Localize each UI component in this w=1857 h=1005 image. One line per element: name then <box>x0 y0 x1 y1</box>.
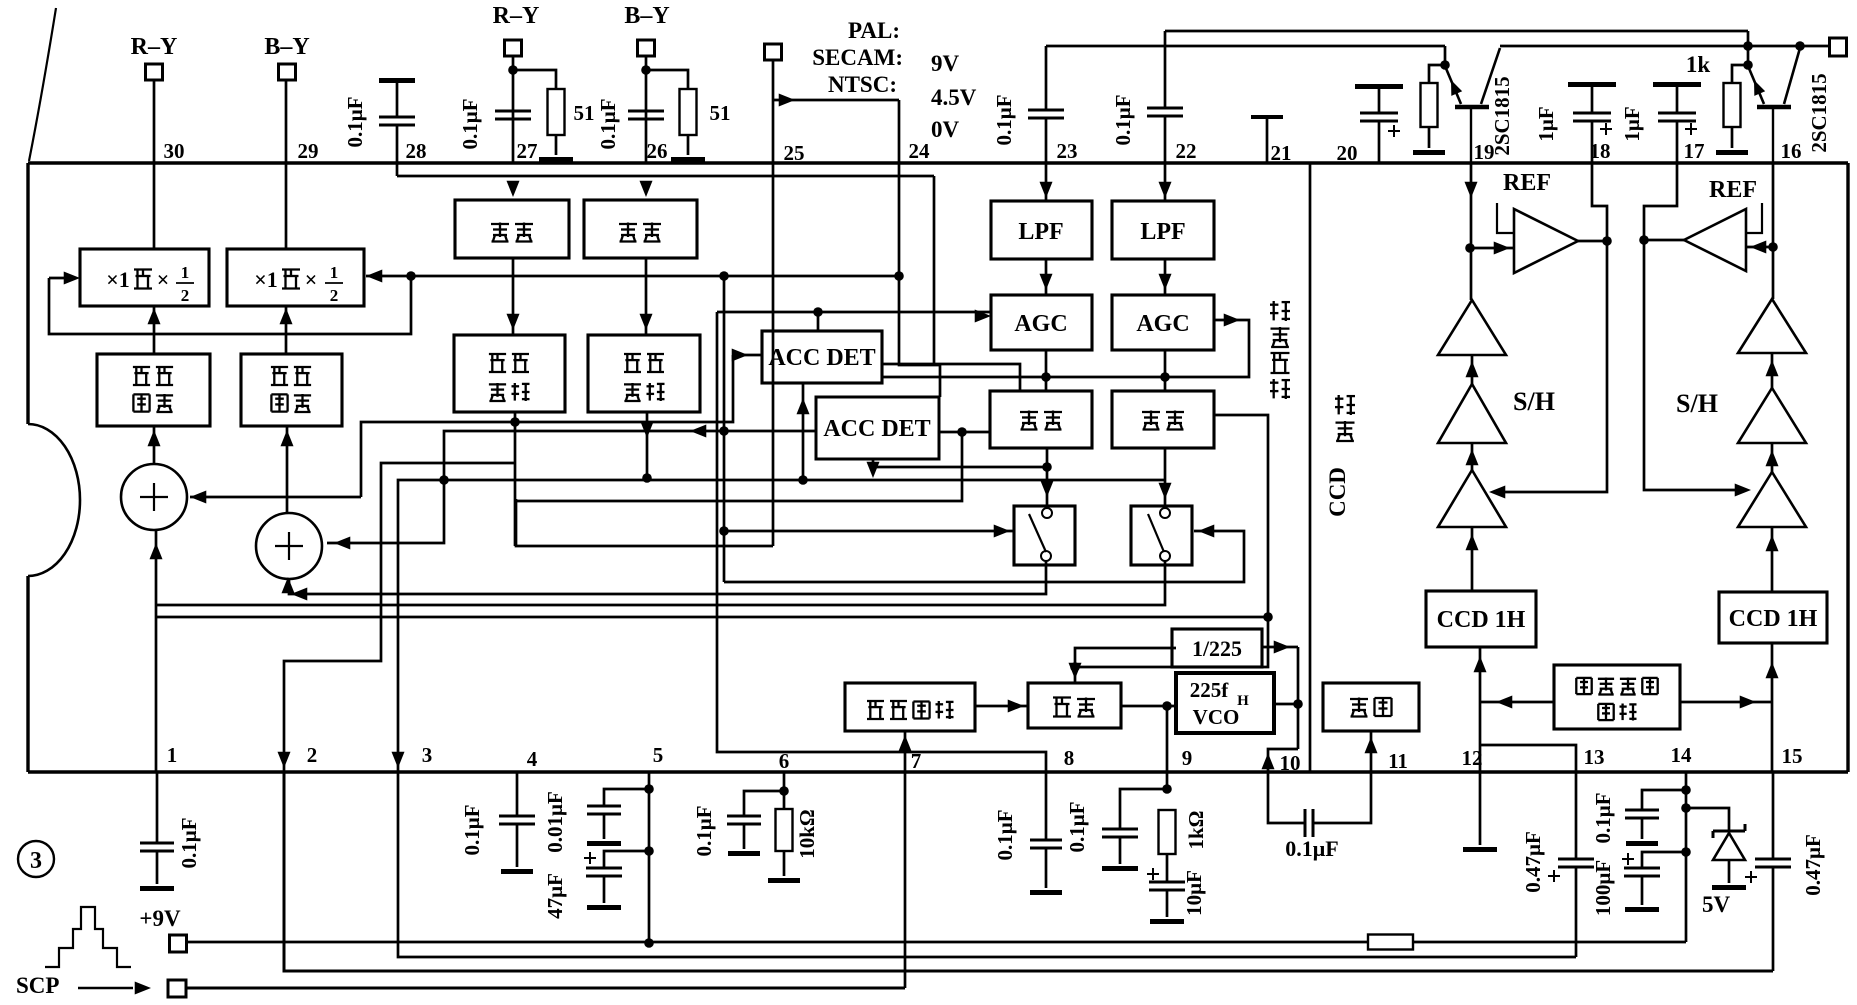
wire LPF1 to AGC1 <box>1045 259 1048 295</box>
svg-text:5: 5 <box>653 743 664 767</box>
wire bias to CCD1H-R line <box>1680 701 1772 704</box>
svg-text:9: 9 <box>1182 746 1193 770</box>
wire W3 insert1-node to pin 2 <box>284 463 515 772</box>
wire pulse gate to detect <box>975 705 1028 708</box>
wire ACC feedback bus from AGC2 <box>882 320 1249 377</box>
svg-text:14: 14 <box>1671 743 1693 767</box>
svg-text:2: 2 <box>330 286 339 305</box>
resistor 1k at pin 9 <box>1159 810 1176 854</box>
wire switch control SW2 loop <box>724 531 1244 582</box>
wire REF-R output to pin17 and feedback <box>1644 239 1684 242</box>
wire divider output <box>1262 646 1298 649</box>
output pad top right <box>1830 38 1847 56</box>
REF-L ref input bracket <box>1497 203 1514 233</box>
svg-text:4.5V: 4.5V <box>931 85 977 110</box>
feedback control wire to multipliers <box>64 271 80 284</box>
svg-text:1k: 1k <box>1686 52 1711 77</box>
wire into REF-R <box>1746 246 1773 249</box>
svg-text:3: 3 <box>422 743 433 767</box>
box multiplier x1 or x1/2 (B-Y) <box>227 249 364 306</box>
wire x1 box2 to pulse-removal 2 <box>279 308 292 324</box>
capacitor 0.1uF between pins 10 and 11 <box>1268 772 1305 823</box>
box clamp 4 <box>1112 391 1214 448</box>
svg-text:×1: ×1 <box>106 267 130 292</box>
resistor 51 at pin 26 <box>646 70 688 89</box>
svg-text:2: 2 <box>181 286 190 305</box>
box average level bias <box>1554 665 1680 729</box>
wire pin30 into x1-or-x1/2 <box>153 163 156 249</box>
svg-text:18: 18 <box>1590 139 1611 163</box>
wire insert1-node to ACC det2 output <box>515 432 962 501</box>
wire pin29 into x1-or-x1/2 2 <box>285 163 288 249</box>
box switch SW2 <box>1131 506 1192 565</box>
wire ACC det1 bottom <box>802 383 805 480</box>
wire pin16 down to A1R <box>1772 163 1775 299</box>
box detect <box>1028 683 1121 728</box>
resistor at Q1 emitter <box>1421 83 1438 127</box>
svg-text:CCD 1H: CCD 1H <box>1437 607 1526 633</box>
wire rail pin23 cap to Q1 emitter <box>1046 45 1445 48</box>
wire SW2 output to summer1 <box>156 560 1165 605</box>
transistor Q1 2SC1815 at pin 19 <box>1444 46 1447 65</box>
svg-text:SCP: SCP <box>16 973 59 998</box>
wire W2 ACC det2 input <box>327 431 816 543</box>
svg-text:CCD 1H: CCD 1H <box>1729 606 1818 632</box>
box clamp 3 <box>990 391 1092 448</box>
label CCD section <box>1336 421 1355 423</box>
amplifier triangle A2 left <box>1438 384 1506 443</box>
svg-text:0.1μF: 0.1μF <box>458 99 482 150</box>
svg-text:2SC1815: 2SC1815 <box>1807 73 1831 152</box>
svg-text:1: 1 <box>330 263 339 282</box>
svg-text:0.1μF: 0.1μF <box>993 810 1017 861</box>
wire pin 5 external <box>648 772 651 943</box>
box ACC DET 1 <box>762 331 882 383</box>
box LPF 1 <box>1039 182 1052 198</box>
svg-text:13: 13 <box>1584 745 1605 769</box>
svg-text:22: 22 <box>1176 139 1197 163</box>
svg-text:0.1μF: 0.1μF <box>460 805 484 856</box>
svg-text:100μF: 100μF <box>1591 860 1615 916</box>
REF-R ref input bracket <box>1746 203 1762 233</box>
box AGC 2 <box>1112 295 1214 350</box>
svg-text:ACC DET: ACC DET <box>823 416 930 442</box>
svg-text:VCO: VCO <box>1193 705 1240 729</box>
amplifier triangle A3 right <box>1738 472 1806 527</box>
wire SCP pin7 into pulse gate <box>904 731 907 988</box>
wire VCO to pin 10 <box>1268 749 1298 772</box>
box LPF 2 <box>1158 182 1171 198</box>
zener diode 5V at pin 14 <box>1686 808 1729 831</box>
svg-text:27: 27 <box>517 139 538 163</box>
wire pin9 to VCO input <box>1166 706 1169 789</box>
svg-text:0.1μF: 0.1μF <box>1285 836 1338 861</box>
svg-text:B–Y: B–Y <box>264 34 309 60</box>
capacitor 0.1uF at pin 6 <box>744 791 784 816</box>
svg-text:8: 8 <box>1064 746 1075 770</box>
svg-text:×: × <box>157 267 170 292</box>
amplifier triangle A2 right <box>1738 388 1806 443</box>
svg-text:0.1μF: 0.1μF <box>177 818 201 869</box>
wire x1 box to pulse-removal 1 <box>147 308 160 324</box>
svg-text:×1: ×1 <box>254 267 278 292</box>
wire LPF2 to AGC2 <box>1164 259 1167 295</box>
wire summer1 bottom to pin 1 <box>155 531 158 772</box>
wire control bus from pin 24/25 select <box>411 275 899 278</box>
svg-text:47μF: 47μF <box>543 873 567 919</box>
wire ACC det1 side to clamp3 top <box>882 364 1020 391</box>
resistor 10k at pin 6 <box>783 791 786 809</box>
wire switch control SW1 <box>719 526 729 536</box>
amplifier triangle A1 right <box>1738 299 1806 353</box>
svg-text:0.47μF: 0.47μF <box>1801 834 1825 895</box>
capacitor 10uF at pin 9 <box>1147 873 1159 875</box>
box pulse insert 2 <box>588 335 700 412</box>
amplifier triangle A3 left <box>1438 470 1506 527</box>
wire clock to pin 11 <box>1370 731 1373 772</box>
wire CCD1H-L down to pin 12/13 <box>1479 647 1482 772</box>
svg-text:S/H: S/H <box>1676 389 1718 418</box>
wire pin25 select to insert1-node <box>516 499 773 546</box>
wire ACC det2 bottom <box>872 459 875 467</box>
wire pulse-removal2 to summer2 <box>280 430 293 446</box>
svg-text:1μF: 1μF <box>1620 106 1644 141</box>
capacitor 0.1uF at pin 4 <box>516 772 519 816</box>
svg-text:R–Y: R–Y <box>493 3 540 29</box>
svg-text:0.1μF: 0.1μF <box>1591 793 1615 844</box>
svg-text:S/H: S/H <box>1513 387 1555 416</box>
wire A2-A1 <box>1471 355 1474 384</box>
capacitor 0.1uF at pin 8 <box>1045 772 1048 840</box>
svg-text:4: 4 <box>527 747 538 771</box>
SCP staircase waveform <box>45 907 131 967</box>
wire clamp4 output to detect and pin1 <box>1075 415 1268 683</box>
svg-text:0.1μF: 0.1μF <box>343 97 367 148</box>
box clamp 2 <box>639 181 652 197</box>
box clamp 1 <box>506 181 519 197</box>
junction node pin27/R51 <box>508 65 518 75</box>
summer S2 <box>256 513 322 579</box>
svg-text:11: 11 <box>1388 749 1408 773</box>
svg-text:CCD: CCD <box>1325 467 1350 517</box>
wire into REF-L <box>1470 247 1514 250</box>
box divider 1/225 <box>1172 629 1262 667</box>
wire clamp3 to switch SW1 <box>1046 448 1049 507</box>
box pulse gate <box>845 683 975 731</box>
wire SCP rail to pin 7 <box>186 987 905 990</box>
wire pin 6 external <box>783 772 786 791</box>
svg-text:+9V: +9V <box>139 906 181 931</box>
wire CCD1H-L up to S/H chain <box>1471 527 1474 591</box>
capacitor 1uF at pin 17 <box>1653 82 1701 87</box>
wire summer1 right input from pulse-insert net <box>190 490 206 503</box>
svg-text:21: 21 <box>1271 141 1292 165</box>
wire pin25 to pin24 node <box>779 93 795 106</box>
svg-text:7: 7 <box>911 749 922 773</box>
capacitor 0.47uF at pin 13 <box>1575 772 1578 859</box>
wire divider input tap <box>1070 662 1080 672</box>
svg-text:51: 51 <box>710 101 731 125</box>
wire switch control vertical <box>723 276 726 582</box>
wire A2R-A1R <box>1771 353 1774 388</box>
wire AGC2 to clamp4 <box>1164 350 1167 391</box>
svg-text:1: 1 <box>167 743 178 767</box>
capacitor 0.1uF at pin 14 <box>1642 790 1686 810</box>
box clock <box>1323 683 1419 731</box>
svg-text:ACC DET: ACC DET <box>768 345 875 371</box>
svg-text:2: 2 <box>307 743 318 767</box>
svg-text:28: 28 <box>406 139 427 163</box>
svg-text:5V: 5V <box>1702 892 1731 917</box>
separator line CCD section <box>1309 164 1312 772</box>
box pulse removal 1 <box>97 354 210 426</box>
wire ACC det2 right to clamp3 <box>939 431 990 434</box>
wire A3-A2 <box>1471 443 1474 470</box>
svg-text:NTSC:: NTSC: <box>828 72 897 97</box>
wire vertical to pin 8 <box>717 312 1046 772</box>
wire S pin3 ACC line <box>398 480 1165 772</box>
capacitor 0.47uF at pin 15 <box>1772 772 1775 859</box>
circled figure number 3 <box>18 841 54 877</box>
wire pin19 down to A1 <box>1470 163 1473 300</box>
transistor Q2 2SC1815 at pin 16 <box>1747 31 1750 46</box>
resistor 51 at pin 27 <box>513 70 556 89</box>
label bipolar section <box>1270 382 1278 384</box>
svg-text:10kΩ: 10kΩ <box>795 809 819 859</box>
terminal select (pin 25) <box>765 44 782 60</box>
wire clamp4 output to pin 1 net <box>156 616 1268 619</box>
wire pin 2 external to rail <box>284 772 1773 971</box>
test stub at pin 21 <box>1251 115 1283 119</box>
capacitor 1uF at pin 18 <box>1568 82 1616 87</box>
box switch SW1 <box>1014 506 1075 565</box>
svg-text:6: 6 <box>779 749 790 773</box>
svg-text:20: 20 <box>1337 141 1358 165</box>
svg-text:AGC: AGC <box>1014 311 1067 337</box>
svg-text:1: 1 <box>181 263 190 282</box>
svg-text:0.1μF: 0.1μF <box>992 95 1016 146</box>
amplifier REF left <box>1514 209 1578 273</box>
capacitor 0.1uF at pin 9 <box>1120 789 1167 829</box>
svg-text:LPF: LPF <box>1018 219 1063 245</box>
wire Q1 collector rail to output pad <box>1500 45 1830 48</box>
capacitor 0.1uF at pin 26 <box>628 110 664 113</box>
svg-text:17: 17 <box>1684 139 1705 163</box>
svg-text:REF: REF <box>1709 177 1757 203</box>
svg-text:24: 24 <box>909 139 931 163</box>
box ACC DET 2 <box>816 397 939 459</box>
box pulse removal 2 <box>241 354 342 426</box>
page curve mark top-left <box>29 8 56 161</box>
capacitor 0.1uF at pin 1 <box>156 772 159 843</box>
svg-text:0V: 0V <box>931 117 960 142</box>
svg-text:10: 10 <box>1280 751 1301 775</box>
summer S1 <box>121 464 187 530</box>
svg-text:SECAM:: SECAM: <box>812 45 903 70</box>
svg-text:PAL:: PAL: <box>848 18 900 43</box>
svg-text:51: 51 <box>574 101 595 125</box>
wire pin 14 power node <box>1685 772 1688 942</box>
box multiplier x1 or x1/2 (R-Y) <box>80 249 209 306</box>
capacitor 0.1uF at pin 22 <box>1164 31 1167 108</box>
wire AGC1 to clamp3 <box>1045 350 1048 391</box>
svg-text:15: 15 <box>1782 744 1803 768</box>
amplifier triangle A1 left <box>1438 300 1506 355</box>
capacitor at pin 20 (electrolytic) <box>1355 84 1403 89</box>
svg-text:26: 26 <box>647 139 668 163</box>
svg-text:25: 25 <box>784 141 805 165</box>
IC body outline U1 (30-pin package) <box>28 161 1848 164</box>
wire SW1 output to summer2 <box>289 560 1046 594</box>
wire clamp1 to pulse-insert1 <box>512 258 515 335</box>
box CCD 1H left <box>1426 591 1536 647</box>
box pulse insert 1 <box>454 335 565 412</box>
svg-text:0.1μF: 0.1μF <box>692 806 716 857</box>
svg-text:B–Y: B–Y <box>624 3 669 29</box>
capacitor 100uF at pin 14 <box>1642 852 1686 868</box>
capacitor 0.1uF at pin 27 <box>495 110 531 113</box>
wire clamp2 to pulse-insert2 <box>645 258 648 335</box>
box VCO 225fH <box>1176 673 1274 733</box>
svg-text:3: 3 <box>30 848 42 874</box>
wire CCD1H-R down to pin 15 <box>1771 643 1774 772</box>
Q1 body <box>1445 66 1461 104</box>
svg-text:225f: 225f <box>1190 678 1230 702</box>
svg-text:0.47μF: 0.47μF <box>1521 831 1545 892</box>
capacitor 0.1uF at pin 23 <box>1045 46 1048 110</box>
svg-text:0.1μF: 0.1μF <box>1065 802 1089 853</box>
amplifier REF right <box>1684 209 1746 271</box>
wire pin 24 select vertical <box>899 100 940 397</box>
svg-text:23: 23 <box>1057 139 1078 163</box>
wire CCD1H-R up to S/H chain <box>1771 527 1774 592</box>
wire bias to CCD1H-L line <box>1480 701 1554 704</box>
svg-text:30: 30 <box>164 139 185 163</box>
wire W1 pulse-insert bottoms <box>361 355 733 497</box>
capacitor 0.1uF at pin 28 <box>379 78 415 83</box>
svg-text:0.1μF: 0.1μF <box>1111 95 1135 146</box>
box CCD 1H right <box>1719 592 1827 643</box>
svg-text:29: 29 <box>298 139 319 163</box>
capacitor 0.01uF at pin 5 <box>604 789 649 806</box>
wire clamp4 to switch SW2 <box>1164 448 1167 507</box>
wire pin28 rail to clamp3 top <box>397 175 934 178</box>
svg-text:16: 16 <box>1781 139 1802 163</box>
wire pulse-insert1 bottom node <box>514 412 517 546</box>
wire VCO output node <box>1274 703 1298 706</box>
svg-text:R–Y: R–Y <box>131 34 178 60</box>
svg-text:REF: REF <box>1503 170 1551 196</box>
wire pulse-insert2 bottom to ACC line <box>646 412 649 478</box>
wire rail pin22 cap to Q2 emitter <box>1165 30 1748 33</box>
svg-text:AGC: AGC <box>1136 311 1189 337</box>
ground at pin 12 <box>1479 772 1482 845</box>
svg-text:10μF: 10μF <box>1182 870 1206 916</box>
wire branch to pin 13 <box>1480 745 1576 772</box>
junction node pin26/R51 <box>641 65 651 75</box>
svg-text:9V: 9V <box>931 51 960 76</box>
svg-text:1kΩ: 1kΩ <box>1184 811 1208 850</box>
wire pin 3 external to rail <box>398 772 1576 957</box>
wire ACC det1 top from AGC line <box>817 312 820 331</box>
capacitor 47uF at pin 5 <box>604 851 649 868</box>
svg-text:19: 19 <box>1474 140 1495 164</box>
wire REF-L output to pin18 and feedback <box>1578 240 1607 243</box>
wire detect to VCO <box>1121 705 1176 708</box>
svg-text:1μF: 1μF <box>1534 106 1558 141</box>
wire pulse-removal1 to summer1 <box>147 430 160 446</box>
wire AGC1 input line <box>717 311 991 314</box>
wire pin 9 external node <box>1162 784 1172 794</box>
svg-text:1/225: 1/225 <box>1192 636 1242 661</box>
box AGC 1 <box>991 295 1092 350</box>
series resistor on 9V rail <box>1368 935 1413 950</box>
svg-text:12: 12 <box>1462 746 1483 770</box>
svg-text:0.01μF: 0.01μF <box>543 791 567 852</box>
wire A3R-A2R <box>1771 443 1774 472</box>
svg-text:LPF: LPF <box>1140 219 1185 245</box>
wire +9V rail <box>187 941 1368 944</box>
svg-text:0.1μF: 0.1μF <box>596 99 620 150</box>
svg-text:×: × <box>305 267 318 292</box>
